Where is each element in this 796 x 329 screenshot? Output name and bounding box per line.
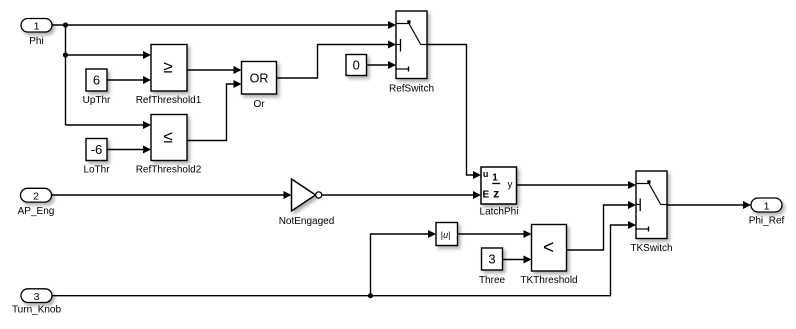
node junction on branch [63,52,68,57]
wire RefThreshold1 to Or input 1 [187,66,242,74]
inport 1 Phi [21,19,52,48]
wire Or to RefSwitch input 2 [277,41,397,79]
wire branch to RefThreshold1 input 1 [66,51,152,59]
svg-text:y: y [508,180,513,191]
svg-text:TKThreshold: TKThreshold [520,275,577,286]
node junction on Turn_Knob wire [368,293,373,298]
svg-text:≤: ≤ [163,128,172,147]
wire constant 0 to RefSwitch input 3 [367,61,397,69]
svg-text:1: 1 [764,201,770,213]
wire RefThreshold2 to Or input 2 [187,80,242,141]
constant LoThr value -6 [83,139,110,176]
inport 3 Turn_Knob [12,289,62,316]
wire Turn_Knob to TKSwitch input 3 [52,221,636,296]
svg-text:RefSwitch: RefSwitch [389,83,434,94]
wire Phi branch vertical [65,25,67,125]
svg-text:LoThr: LoThr [83,165,110,176]
inport 2 AP_Eng [18,188,55,217]
svg-text:≥: ≥ [163,58,172,77]
wire NotEngaged to LatchPhi input E [322,191,481,199]
wire TKThreshold to TKSwitch input 2 [567,201,637,250]
svg-text:Phi: Phi [29,36,43,47]
svg-text:Or: Or [253,99,265,110]
wire UpThr to RefThreshold1 input 2 [107,76,151,84]
svg-text:3: 3 [488,252,495,267]
svg-text:NotEngaged: NotEngaged [279,216,335,227]
svg-text:|u|: |u| [441,230,451,240]
svg-text:3: 3 [34,291,40,303]
wire junction to Abs input [371,230,437,296]
logic block Or [242,62,277,111]
node junction on Phi wire [63,22,68,27]
constant 0 [346,55,367,76]
wire LatchPhi to TKSwitch input 1 [517,181,637,189]
svg-text:LatchPhi: LatchPhi [480,207,519,218]
svg-text:1: 1 [34,21,40,33]
wire TKSwitch to Phi_Ref [667,201,751,209]
not gate NotEngaged [279,179,335,227]
svg-text:AP_Eng: AP_Eng [18,206,55,217]
wire Three to TKThreshold input 2 [503,256,532,264]
wire AP_Eng to NotEngaged [52,191,292,199]
svg-text:RefThreshold1: RefThreshold1 [136,95,202,106]
svg-text:z: z [493,186,499,200]
wire Abs to TKThreshold input 1 [458,230,532,238]
unit delay LatchPhi [480,167,519,218]
abs block |u| [436,223,458,246]
svg-text:u: u [483,169,489,179]
block TKThreshold [520,225,577,287]
switch RefSwitch [389,11,434,94]
svg-text:1: 1 [492,172,498,183]
switch TKSwitch [630,171,672,254]
svg-text:Three: Three [479,275,506,286]
svg-text:TKSwitch: TKSwitch [630,243,672,254]
svg-text:E: E [483,189,490,200]
svg-text:-6: -6 [91,142,103,157]
svg-text:RefThreshold2: RefThreshold2 [136,165,202,176]
svg-text:0: 0 [353,58,360,73]
wire Phi to RefSwitch input 1 [52,21,396,29]
svg-text:UpThr: UpThr [83,95,111,106]
constant UpThr value 6 [83,69,111,106]
block RefThreshold2 [136,115,202,176]
wire branch to RefThreshold2 input 1 [66,121,152,129]
svg-text:OR: OR [250,71,269,85]
svg-text:Turn_Knob: Turn_Knob [12,305,62,316]
constant Three value 3 [479,248,506,286]
svg-text:6: 6 [93,73,100,88]
wire RefSwitch to LatchPhi input u [427,45,481,180]
svg-text:<: < [543,237,554,258]
block RefThreshold1 [136,45,202,106]
svg-text:Phi_Ref: Phi_Ref [749,216,785,227]
wire LoThr to RefThreshold2 input 2 [107,146,151,154]
outport 1 Phi_Ref [749,198,785,227]
svg-text:2: 2 [33,191,39,203]
